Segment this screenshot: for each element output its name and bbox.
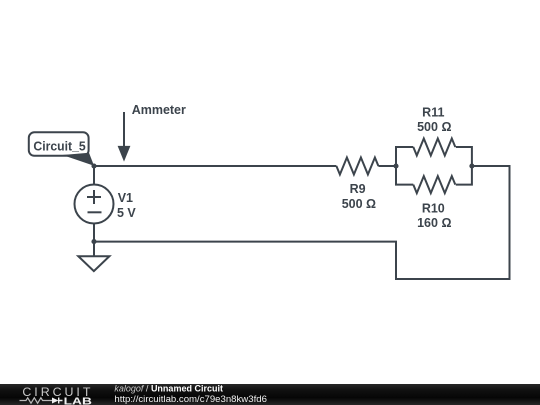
wire node A down to V1 top — [93, 166, 95, 185]
svg-text:500 Ω: 500 Ω — [417, 120, 451, 134]
node C dot — [469, 163, 474, 168]
voltage source V1 circle — [75, 185, 114, 224]
node B dot — [393, 163, 398, 168]
wire parallel bottom branch right — [456, 166, 472, 185]
logo resistor-diode symbol — [20, 398, 53, 403]
wire parallel top branch right — [456, 147, 472, 166]
V1 minus sign — [88, 211, 102, 213]
wire parallel bottom branch left — [396, 166, 413, 185]
resistor R11 — [413, 139, 455, 156]
flag Circuit_5 tail — [63, 153, 95, 166]
node D dot — [91, 239, 96, 244]
svg-text:LAB: LAB — [64, 396, 92, 405]
svg-text:R10: R10 — [422, 201, 445, 215]
node A dot — [91, 163, 96, 168]
ammeter arrow line — [123, 112, 125, 146]
resistor R9 — [336, 158, 378, 175]
svg-text:http://circuitlab.com/c79e3n8k: http://circuitlab.com/c79e3n8kw3fd6 — [114, 394, 267, 405]
wire top from node A to R9 — [94, 165, 336, 167]
V1 plus sign — [87, 190, 101, 204]
wire V1 bottom to node D — [93, 224, 95, 242]
ground symbol — [78, 256, 109, 271]
svg-text:Ammeter: Ammeter — [132, 103, 186, 117]
footer bar — [0, 384, 540, 405]
svg-text:V1: V1 — [118, 191, 133, 205]
wire parallel top branch left — [396, 147, 413, 166]
ground stub wire — [93, 242, 95, 257]
wire R9 to node B — [378, 165, 396, 167]
logo diode — [52, 398, 59, 404]
svg-text:R9: R9 — [350, 182, 366, 196]
resistor R10 — [413, 176, 455, 193]
ammeter arrow head — [118, 146, 131, 162]
wire return loop from node C to V1 bottom node — [94, 166, 510, 279]
svg-text:160 Ω: 160 Ω — [417, 216, 451, 230]
svg-text:5 V: 5 V — [117, 206, 136, 220]
svg-text:kalogof / Unnamed Circuit: kalogof / Unnamed Circuit — [114, 384, 223, 394]
svg-text:R11: R11 — [422, 106, 444, 120]
flag Circuit_5 box — [29, 132, 89, 156]
svg-text:Circuit_5: Circuit_5 — [33, 140, 85, 154]
svg-text:500 Ω: 500 Ω — [342, 197, 376, 211]
